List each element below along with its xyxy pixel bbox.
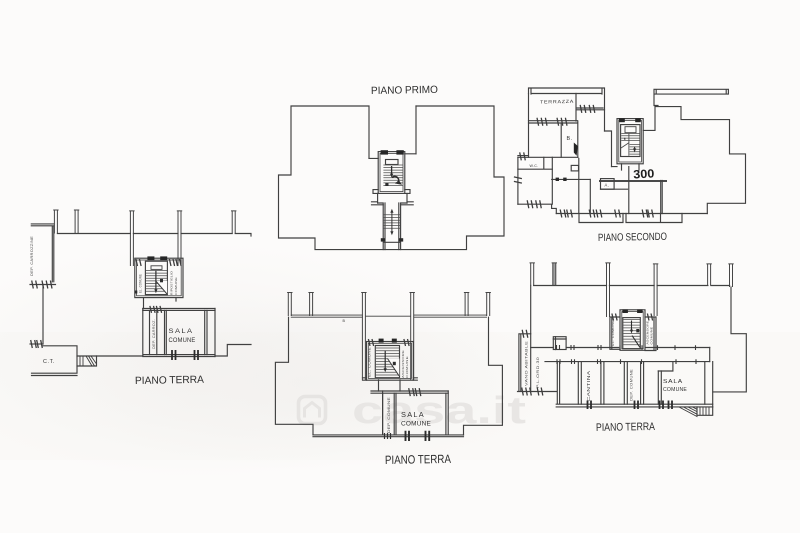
plan2 A box xyxy=(601,179,615,190)
plan4 stair flare feet xyxy=(363,378,418,380)
svg-text:PIANO TERRA: PIANO TERRA xyxy=(385,452,451,467)
plan5 room band xyxy=(556,362,713,407)
svg-text:SALA: SALA xyxy=(663,379,683,385)
plan5 stair treads xyxy=(623,320,640,345)
plan4 connectors to sala xyxy=(379,380,401,391)
plan1 lower stair arrow xyxy=(390,209,393,235)
plan2 stair arrow xyxy=(625,138,636,153)
svg-text:W.C.: W.C. xyxy=(530,164,539,168)
plan2 bottom edge xyxy=(556,213,707,215)
plan2 room divider left xyxy=(560,123,562,157)
plan2 stair jambs xyxy=(619,118,625,122)
plan3 stair to sala connectors xyxy=(144,298,177,309)
svg-text:COMUNE: COMUNE xyxy=(169,337,196,344)
plan5 beam line xyxy=(534,285,730,287)
plan3 wall y344 xyxy=(30,343,43,345)
plan2 window ticks wall y157 left xyxy=(520,152,526,160)
plan2 small step box xyxy=(571,165,578,171)
plan2 right wing boundary xyxy=(605,107,746,214)
plan5 stair block outer xyxy=(620,310,645,351)
svg-text:DEP. CARROZ.: DEP. CARROZ. xyxy=(152,319,156,349)
plan3 ticks stair bay tops xyxy=(136,259,141,266)
plan2 right top balcony double band xyxy=(654,89,728,105)
plan1 connectors bay to stair xyxy=(369,154,416,159)
plan5 left outline xyxy=(518,286,557,392)
plan4 stair jambs xyxy=(379,339,384,343)
plan3 door steps right of CT xyxy=(77,356,97,366)
svg-text:EL. COMUNE: EL. COMUNE xyxy=(368,347,372,377)
svg-text:SALA: SALA xyxy=(169,328,194,335)
svg-text:B: B xyxy=(343,319,346,323)
plan5 stairwell core xyxy=(623,318,641,349)
plan1 stair door jambs (black) xyxy=(381,150,388,154)
plan5 ticks corridor xyxy=(557,345,697,364)
plan4 sala comune block xyxy=(371,391,448,393)
plan4 stair treads xyxy=(376,348,399,375)
plan2 wall y157 xyxy=(518,156,578,158)
svg-text:SALA: SALA xyxy=(401,412,425,419)
plan3 left wall x43 xyxy=(42,285,44,345)
plan2 corridor vertical x590 xyxy=(589,179,591,212)
plan2 wall y181 thick xyxy=(600,180,666,182)
plan3 stair block outer xyxy=(135,258,183,297)
svg-text:VANO ABITABLE: VANO ABITABLE xyxy=(524,340,528,386)
svg-text:DEP. COMUNE: DEP. COMUNE xyxy=(387,396,391,433)
svg-text:COMUNE: COMUNE xyxy=(401,421,431,428)
plan2 stair block outer xyxy=(617,119,643,164)
plan4 left outline xyxy=(275,317,313,435)
plan4 stairwell core xyxy=(375,346,399,378)
plan3 ticks sala top xyxy=(150,306,155,313)
plan5 entrance steps rect xyxy=(697,407,713,415)
plan2 terrace parapet double wall xyxy=(529,88,605,131)
svg-text:PIANO PRIMO: PIANO PRIMO xyxy=(371,84,438,97)
plan3 stairwell core xyxy=(145,261,167,294)
plan5 stair arrow + dark wedge xyxy=(630,321,640,348)
plan1 landing walls xyxy=(372,193,414,204)
plan2 window ticks bottom edge groups xyxy=(560,210,566,218)
plan3 sala bottom xyxy=(143,309,215,357)
svg-text:P.L.ORD.30: P.L.ORD.30 xyxy=(536,357,540,388)
svg-text:EL. COMUNE: EL. COMUNE xyxy=(138,274,142,293)
plan1 stair flare wings xyxy=(373,190,410,194)
plan2 window ticks terrace wall xyxy=(537,118,547,126)
plan2 wc walls xyxy=(518,157,552,169)
svg-text:COMUNE: COMUNE xyxy=(405,356,409,378)
plan2 wall under terrace xyxy=(529,121,578,123)
plan3 stair treads xyxy=(146,271,167,292)
svg-text:TERRAZZA: TERRAZZA xyxy=(540,99,574,105)
svg-text:CANTINA: CANTINA xyxy=(586,369,591,401)
plan5 right end xyxy=(710,348,713,407)
plan4 ticks sala top xyxy=(409,388,415,396)
plan3 sala walls xyxy=(150,309,216,357)
plan3 CT room xyxy=(32,346,78,376)
plan2 stair treads xyxy=(621,134,639,141)
plan3 ticks wall y344 xyxy=(31,340,37,348)
plan4 beam line xyxy=(291,315,486,317)
plan5 left bay of stair xyxy=(610,317,620,349)
plan2 window ticks upper room xyxy=(580,105,586,113)
plan2 verticals lower centre xyxy=(629,167,662,214)
plan3 baseline to sala xyxy=(97,345,252,357)
plan1 outer wall outline xyxy=(279,106,505,250)
plan3 beam line xyxy=(57,234,251,237)
plan2 wall y188 xyxy=(601,188,628,190)
plan2 window ticks bottom-left wall xyxy=(527,200,533,208)
plan4 right outline xyxy=(464,317,503,435)
plan5 left inner verticals xyxy=(530,334,532,392)
svg-text:COMUNE: COMUNE xyxy=(174,277,178,295)
plan1 lower shaft jambs xyxy=(381,238,385,241)
plan3 stair diagonal and arrow xyxy=(135,271,163,294)
plan5 ticks stair top xyxy=(612,314,617,321)
plan1 stair divider and arrows xyxy=(385,166,402,186)
plan5 pilotis legs xyxy=(530,263,535,286)
plan5 sala notch xyxy=(658,362,705,405)
plan2 left outer wall lower xyxy=(517,157,519,204)
plan5 small square box xyxy=(553,337,566,350)
plan4 pilotis legs xyxy=(287,293,292,317)
plan5 ticks room bottoms xyxy=(588,401,673,410)
svg-text:COMUNE: COMUNE xyxy=(663,387,687,393)
svg-text:DEP. CARROZZINE: DEP. CARROZZINE xyxy=(30,236,34,276)
plan5 right outline xyxy=(713,287,746,392)
svg-text:PIANO SECONDO: PIANO SECONDO xyxy=(598,231,667,244)
plan1 top bay right wall xyxy=(415,106,417,154)
svg-text:B.: B. xyxy=(567,136,573,142)
plan2 wall y179 with door jambs xyxy=(552,178,590,180)
svg-text:A.: A. xyxy=(605,183,610,188)
watermark casa.it logo house icon xyxy=(299,397,326,424)
plan2 door jamb black blob xyxy=(574,143,578,156)
plan4 stair diagonal arrow xyxy=(384,351,396,373)
plan1 stair block outer walls xyxy=(378,152,405,194)
plan2 central vertical x578 xyxy=(578,159,580,214)
plan3 door hatch right of CT xyxy=(80,356,97,366)
svg-text:C.T.: C.T. xyxy=(43,359,55,365)
plan2 balconies below xyxy=(579,214,682,223)
svg-text:COMUNE: COMUNE xyxy=(649,327,653,345)
plan2 wall x552 xyxy=(551,157,553,204)
svg-text:PIANO TERRA: PIANO TERRA xyxy=(135,374,204,387)
plan3 stair jambs xyxy=(147,256,154,260)
plan5 corridor top line xyxy=(531,347,710,349)
plan1 lower corridor shaft walls xyxy=(378,203,407,250)
plan5 corridor bottom line xyxy=(545,361,710,363)
svg-text:EL. COMUNE: EL. COMUNE xyxy=(611,320,615,346)
plan3 sala bottom jambs xyxy=(172,350,198,360)
svg-text:300: 300 xyxy=(633,166,655,181)
plan1 stairwell core xyxy=(386,160,399,165)
plan3 sala comune block top xyxy=(143,309,215,311)
plan2 stair bottom connectors xyxy=(612,164,640,170)
plan4 stair block outer xyxy=(367,342,414,381)
plan1 lower stair treads xyxy=(384,215,401,229)
plan5 external steps wedge xyxy=(679,407,709,417)
plan2 bottom left wall xyxy=(518,204,556,213)
plan2 window ticks left wall vertical xyxy=(514,177,522,183)
plan3 wall y284 xyxy=(30,284,56,286)
plan3 pilotis legs xyxy=(53,210,58,234)
plan5 right bay of stair xyxy=(645,317,656,351)
svg-text:DEP. COMUNE: DEP. COMUNE xyxy=(629,368,633,401)
plan2 left outer wall xyxy=(528,94,530,158)
plan3 left bay walls xyxy=(31,224,54,282)
svg-text:PIANO TERRA: PIANO TERRA xyxy=(596,421,656,434)
plan2 B room right wall xyxy=(577,121,579,157)
plan5 stair jambs xyxy=(622,309,628,313)
plan5 ticks left wall xyxy=(522,330,528,338)
plan5 room dividers xyxy=(578,362,661,405)
plan4 ticks stair bays xyxy=(368,339,373,346)
plan1 stair treads hatch xyxy=(383,165,403,185)
plan3 ticks left bay bottom xyxy=(32,281,38,289)
plan2 terrazza inner wall with step xyxy=(576,94,605,122)
plan2 stairwell core xyxy=(621,125,640,157)
plan4 sala bottom jambs xyxy=(406,431,430,441)
